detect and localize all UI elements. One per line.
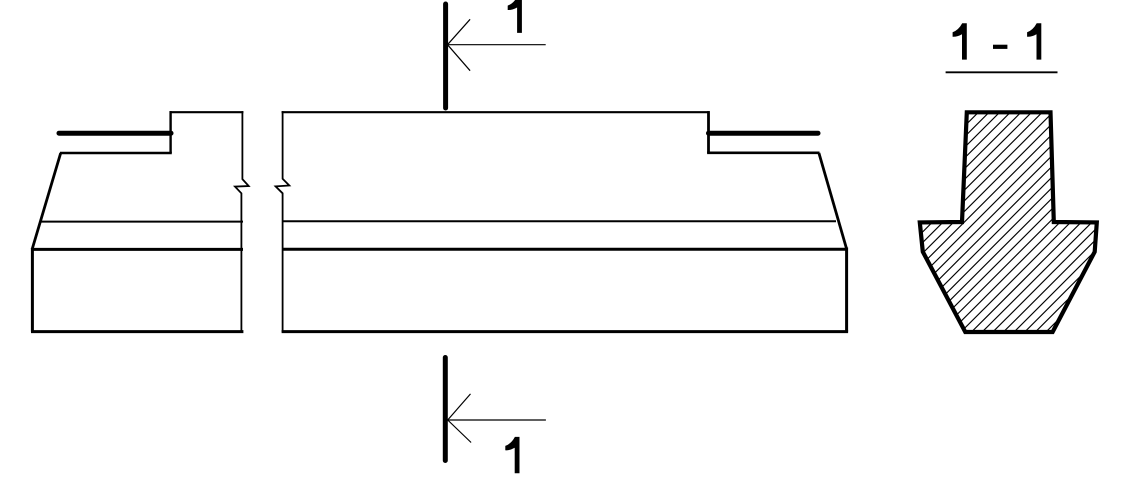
section view title digit 1 right	[1027, 23, 1041, 59]
section outline	[920, 112, 1097, 332]
section arrow bottom shaft	[448, 419, 546, 421]
left fragment embedded plate	[59, 131, 171, 136]
section cut line 1 bottom	[443, 358, 448, 461]
left fragment step vertical edge	[169, 111, 171, 153]
main piece bottom edge	[282, 330, 849, 333]
section view title dash	[993, 45, 1007, 49]
section hatch	[740, 100, 1123, 340]
main piece thick ledge line	[282, 248, 847, 251]
section arrow top upper barb	[448, 19, 471, 44]
main piece top edge	[282, 111, 710, 113]
main piece embedded plate	[709, 131, 819, 136]
main piece top bearing surface	[707, 152, 819, 155]
main piece step vertical edge	[707, 111, 710, 153]
left fragment left edge	[31, 248, 34, 332]
section arrow bottom lower barb	[448, 420, 471, 443]
main piece thin ledge line	[282, 220, 836, 222]
left fragment thick ledge line	[32, 248, 243, 251]
section view title underline	[946, 71, 1058, 73]
section arrow top shaft	[448, 44, 546, 46]
section arrow top lower barb	[448, 45, 471, 71]
section label 1 bottom	[505, 437, 519, 473]
section cut line 1 top	[443, 4, 448, 108]
main piece break line	[276, 111, 290, 332]
left fragment step top edge	[170, 111, 244, 113]
section label 1 top	[508, 0, 522, 33]
left fragment break line	[235, 111, 249, 332]
left fragment bottom edge	[31, 330, 243, 333]
left fragment sloped end face	[32, 153, 61, 249]
left fragment top bearing surface	[60, 152, 172, 154]
section view title digit 1 left	[953, 23, 967, 59]
left fragment thin ledge line	[40, 221, 243, 223]
section arrow bottom upper barb	[448, 394, 471, 420]
main piece sloped end face	[819, 153, 847, 249]
main piece right edge	[845, 248, 848, 332]
